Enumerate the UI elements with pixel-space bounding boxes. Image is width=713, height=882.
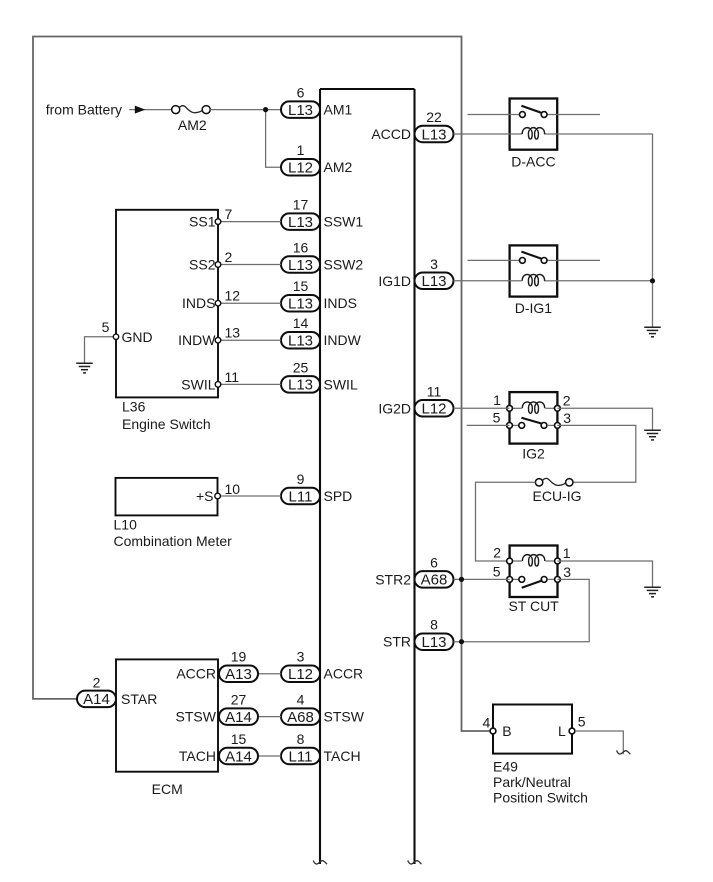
svg-text:TACH: TACH <box>179 748 216 764</box>
svg-text:D-ACC: D-ACC <box>511 154 555 170</box>
svg-text:3: 3 <box>563 410 571 426</box>
svg-text:22: 22 <box>426 109 442 125</box>
svg-text:2: 2 <box>93 675 101 691</box>
svg-text:11: 11 <box>225 369 240 385</box>
svg-text:A14: A14 <box>225 748 252 765</box>
svg-text:A68: A68 <box>421 572 448 589</box>
svg-text:8: 8 <box>430 617 438 633</box>
svg-text:25: 25 <box>293 359 309 375</box>
svg-text:A14: A14 <box>225 709 252 726</box>
svg-text:ACCD: ACCD <box>371 126 411 142</box>
svg-text:SS1: SS1 <box>189 214 216 230</box>
svg-text:L13: L13 <box>288 214 313 231</box>
svg-text:L36: L36 <box>122 399 146 415</box>
svg-text:INDS: INDS <box>324 295 357 311</box>
svg-text:SWIL: SWIL <box>181 376 215 392</box>
svg-text:1: 1 <box>563 545 571 561</box>
svg-text:from Battery: from Battery <box>46 102 122 118</box>
svg-text:L13: L13 <box>421 634 446 651</box>
svg-text:SSW1: SSW1 <box>324 214 364 230</box>
svg-text:SPD: SPD <box>324 488 353 504</box>
svg-text:ACCR: ACCR <box>324 666 364 682</box>
svg-text:10: 10 <box>225 481 241 497</box>
svg-text:L11: L11 <box>289 748 313 765</box>
svg-text:1: 1 <box>493 392 501 408</box>
svg-text:5: 5 <box>493 409 501 425</box>
svg-text:5: 5 <box>102 319 110 335</box>
svg-text:15: 15 <box>231 731 247 747</box>
svg-text:IG2D: IG2D <box>378 400 411 416</box>
svg-text:7: 7 <box>225 206 233 222</box>
svg-text:2: 2 <box>563 392 571 408</box>
svg-text:11: 11 <box>427 383 442 399</box>
svg-text:4: 4 <box>297 692 305 708</box>
svg-text:9: 9 <box>297 471 305 487</box>
svg-text:STSW: STSW <box>176 709 217 725</box>
svg-text:L13: L13 <box>421 273 446 290</box>
svg-text:STR: STR <box>383 634 411 650</box>
svg-text:3: 3 <box>563 564 571 580</box>
svg-text:L12: L12 <box>421 401 446 418</box>
svg-text:ECM: ECM <box>152 781 183 797</box>
svg-text:Park/Neutral: Park/Neutral <box>493 774 571 790</box>
svg-text:L: L <box>558 723 566 739</box>
svg-text:AM1: AM1 <box>324 102 353 118</box>
svg-text:1: 1 <box>297 142 305 158</box>
svg-text:SWIL: SWIL <box>324 376 358 392</box>
svg-text:L13: L13 <box>288 377 313 394</box>
svg-text:E49: E49 <box>493 759 518 775</box>
svg-text:GND: GND <box>122 329 153 345</box>
svg-text:3: 3 <box>297 649 305 665</box>
svg-text:12: 12 <box>225 288 241 304</box>
svg-text:5: 5 <box>493 563 501 579</box>
svg-text:AM2: AM2 <box>178 117 207 133</box>
svg-text:L13: L13 <box>288 102 313 119</box>
svg-text:A14: A14 <box>83 691 110 708</box>
svg-text:L11: L11 <box>289 488 313 505</box>
svg-text:L13: L13 <box>288 257 313 274</box>
svg-text:27: 27 <box>231 692 247 708</box>
svg-text:IG1D: IG1D <box>378 273 411 289</box>
svg-text:Position Switch: Position Switch <box>493 790 588 806</box>
svg-text:INDW: INDW <box>178 332 216 348</box>
svg-text:IG2: IG2 <box>522 446 545 462</box>
svg-text:3: 3 <box>430 256 438 272</box>
svg-text:A13: A13 <box>225 666 252 683</box>
svg-text:INDS: INDS <box>182 295 215 311</box>
svg-text:ST CUT: ST CUT <box>508 598 559 614</box>
svg-text:Combination Meter: Combination Meter <box>114 533 233 549</box>
svg-text:B: B <box>502 723 511 739</box>
svg-text:16: 16 <box>293 240 309 256</box>
svg-text:INDW: INDW <box>324 332 362 348</box>
svg-text:A68: A68 <box>287 709 314 726</box>
svg-text:8: 8 <box>297 731 305 747</box>
svg-text:L13: L13 <box>288 296 313 313</box>
svg-text:L13: L13 <box>288 333 313 350</box>
svg-text:14: 14 <box>293 315 309 331</box>
svg-text:SSW2: SSW2 <box>324 257 364 273</box>
svg-text:STAR: STAR <box>121 691 157 707</box>
svg-text:19: 19 <box>231 649 247 665</box>
svg-text:D-IG1: D-IG1 <box>515 300 553 316</box>
svg-text:13: 13 <box>225 325 241 341</box>
svg-text:5: 5 <box>578 714 586 730</box>
svg-text:+S: +S <box>196 488 214 504</box>
svg-text:L10: L10 <box>114 517 138 533</box>
svg-text:4: 4 <box>483 715 491 731</box>
svg-text:17: 17 <box>293 197 309 213</box>
svg-text:TACH: TACH <box>324 748 361 764</box>
svg-text:L12: L12 <box>288 666 313 683</box>
svg-text:15: 15 <box>293 278 309 294</box>
svg-text:Engine Switch: Engine Switch <box>122 416 211 432</box>
svg-text:L13: L13 <box>421 126 446 143</box>
svg-text:6: 6 <box>430 554 438 570</box>
svg-text:STSW: STSW <box>324 709 365 725</box>
svg-text:2: 2 <box>493 545 501 561</box>
svg-text:STR2: STR2 <box>375 571 411 587</box>
svg-text:6: 6 <box>297 85 305 101</box>
svg-text:L12: L12 <box>288 160 313 177</box>
svg-text:ACCR: ACCR <box>176 666 216 682</box>
svg-text:AM2: AM2 <box>324 159 353 175</box>
svg-text:ECU-IG: ECU-IG <box>533 488 582 504</box>
svg-text:SS2: SS2 <box>189 257 216 273</box>
svg-text:2: 2 <box>225 249 233 265</box>
